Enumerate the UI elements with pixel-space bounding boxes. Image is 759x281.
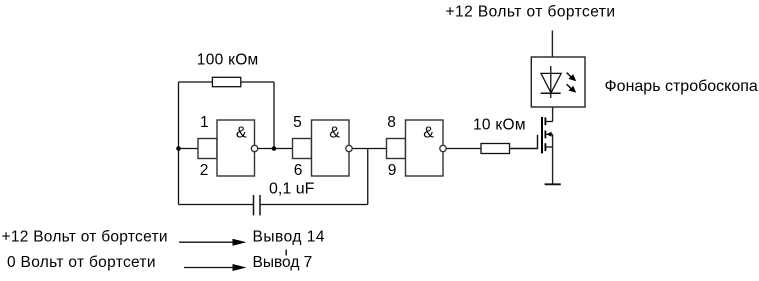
gate U1B body: [312, 120, 350, 176]
svg-text:+12 Вольт от бортсети: +12 Вольт от бортсети: [446, 3, 616, 20]
svg-text:10 кОм: 10 кОм: [473, 117, 526, 134]
svg-text:100 кОм: 100 кОм: [197, 51, 258, 68]
drain stub: [545, 121, 552, 123]
svg-text:8: 8: [387, 114, 396, 131]
svg-text:Вывод 14: Вывод 14: [253, 229, 325, 246]
node input junction dot: [176, 146, 181, 151]
svg-text:1: 1: [200, 114, 209, 131]
channel segment source: [544, 143, 546, 151]
gate lead: [510, 135, 538, 149]
arrow to Вывод 7: [184, 264, 247, 271]
lamp box (Фонарь стробоскопа enclosure): [531, 57, 585, 107]
LED emission arrow 2: [567, 84, 577, 93]
source stub: [545, 146, 552, 148]
LED D1 lead: [550, 66, 552, 98]
cap bottom wire right: [260, 204, 368, 206]
svg-text:9: 9: [388, 162, 397, 179]
gate U1C body: [406, 120, 444, 176]
wire gate2 to gate3: [352, 148, 386, 150]
feedback wire right segment: [241, 81, 274, 83]
gate U1C output bubble: [440, 145, 446, 151]
feedback vertical right: [273, 82, 275, 149]
capacitor C1 plate right: [259, 195, 261, 215]
svg-text:Фонарь стробоскопа: Фонарь стробоскопа: [605, 78, 758, 95]
gate U1B input box: [293, 139, 312, 159]
arrow to Вывод 14: [179, 239, 247, 246]
channel segment drain: [544, 117, 546, 125]
svg-text:&: &: [423, 124, 434, 141]
left vertical wire: [178, 82, 180, 205]
gate U1A output bubble: [251, 145, 257, 151]
wire from +12V to lamp box: [551, 31, 553, 58]
wire lamp box to MOSFET drain: [552, 107, 554, 122]
ground: [545, 183, 561, 185]
bulk stub with arrow: [546, 133, 552, 135]
gate U1B output bubble: [346, 145, 352, 151]
gate U1A body: [217, 120, 255, 176]
svg-text:0,1 uF: 0,1 uF: [269, 181, 315, 198]
gate U1C input box: [387, 139, 406, 159]
LED D1 cathode bar: [541, 92, 561, 94]
svg-text:5: 5: [293, 114, 302, 131]
svg-text:6: 6: [294, 162, 303, 179]
cap branch vertical: [367, 149, 369, 205]
gate plate: [541, 117, 543, 153]
tick between Вывод labels: [285, 250, 287, 256]
transistor Q1 (n-MOSFET): [510, 117, 553, 184]
LED D1 triangle: [541, 73, 561, 92]
wire gate3 output to R2: [446, 148, 481, 150]
svg-text:0 Вольт от бортсети: 0 Вольт от бортсети: [7, 254, 156, 271]
svg-text:&: &: [329, 124, 340, 141]
wire gate1 to gate2: [258, 148, 293, 150]
svg-text:Вывод 7: Вывод 7: [253, 254, 313, 271]
svg-text:&: &: [236, 124, 247, 141]
LED emission arrow 1: [567, 73, 577, 82]
wire input to gate1: [179, 148, 199, 150]
node feedback junction dot: [272, 146, 277, 151]
feedback wire left segment: [179, 81, 213, 83]
svg-text:+12 Вольт от бортсети: +12 Вольт от бортсети: [2, 229, 168, 246]
capacitor C1 plate left: [253, 195, 255, 215]
channel segment bulk: [544, 131, 546, 139]
source rail down: [552, 134, 554, 184]
resistor R2 10k body: [481, 144, 510, 154]
gate U1A input box: [198, 139, 217, 159]
resistor R1 100k body: [212, 77, 240, 86]
svg-text:2: 2: [200, 162, 209, 179]
cap bottom wire left: [179, 204, 254, 206]
